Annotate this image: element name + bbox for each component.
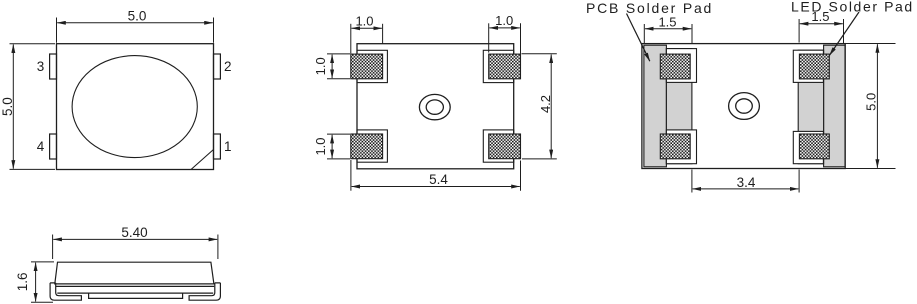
svg-text:5.0: 5.0 bbox=[864, 93, 879, 111]
svg-text:LED Solder Pad: LED Solder Pad bbox=[791, 0, 914, 15]
svg-text:3: 3 bbox=[37, 59, 45, 74]
svg-text:5.0: 5.0 bbox=[0, 97, 15, 116]
svg-text:1.0: 1.0 bbox=[495, 13, 513, 28]
svg-text:1.6: 1.6 bbox=[15, 273, 30, 292]
svg-text:3.4: 3.4 bbox=[737, 175, 756, 190]
svg-text:5.4: 5.4 bbox=[429, 172, 448, 187]
svg-text:5.40: 5.40 bbox=[121, 225, 147, 240]
svg-text:1.0: 1.0 bbox=[355, 14, 373, 29]
svg-text:1.5: 1.5 bbox=[658, 15, 676, 30]
svg-text:PCB Solder Pad: PCB Solder Pad bbox=[586, 0, 713, 16]
svg-text:4: 4 bbox=[37, 139, 45, 154]
svg-text:1.0: 1.0 bbox=[313, 137, 328, 155]
svg-text:1: 1 bbox=[224, 139, 232, 154]
svg-text:2: 2 bbox=[224, 59, 232, 74]
svg-text:5.0: 5.0 bbox=[128, 9, 147, 24]
svg-text:1.0: 1.0 bbox=[313, 57, 328, 75]
svg-text:4.2: 4.2 bbox=[538, 95, 553, 113]
